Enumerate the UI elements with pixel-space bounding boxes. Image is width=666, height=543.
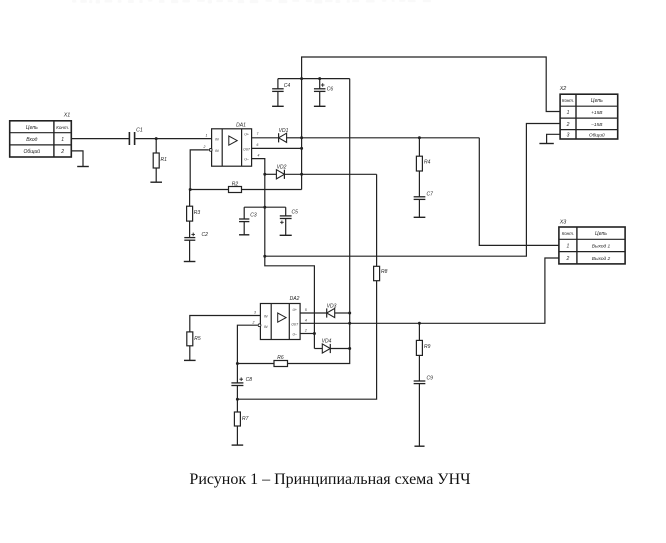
svg-text:3: 3 xyxy=(254,311,256,315)
junction cap rail xyxy=(300,77,303,80)
svg-text:4: 4 xyxy=(258,153,260,157)
wire VD1 to +rail xyxy=(287,137,302,139)
connector X2 table xyxy=(560,94,618,139)
wire R2 to rail xyxy=(242,189,302,191)
svg-text:Цепь: Цепь xyxy=(595,231,607,237)
capacitor C7 xyxy=(414,191,433,199)
wire DA1 OUT xyxy=(252,147,302,149)
wire X1.2 to ground xyxy=(71,151,83,166)
svg-text:5: 5 xyxy=(305,308,307,312)
svg-text:DA2: DA2 xyxy=(290,296,300,302)
ground at C9 xyxy=(414,445,424,447)
svg-text:C8: C8 xyxy=(246,377,253,383)
svg-text:+15В: +15В xyxy=(591,110,603,116)
connector X3 table xyxy=(559,227,625,264)
ground at C2 xyxy=(184,261,196,263)
junction VD4 rail xyxy=(348,347,351,350)
resistor R8 xyxy=(374,266,388,280)
svg-text:2: 2 xyxy=(566,256,570,262)
svg-text:Цепь: Цепь xyxy=(591,98,603,104)
svg-text:U+: U+ xyxy=(244,132,248,136)
resistor R1 xyxy=(153,153,167,168)
svg-text:1: 1 xyxy=(567,110,570,116)
svg-text:VD3: VD3 xyxy=(327,303,337,309)
wire R3 to C2 xyxy=(189,221,191,238)
svg-text:Цепь: Цепь xyxy=(26,125,38,131)
resistor R5 xyxy=(187,332,201,346)
junction DA2 U- xyxy=(313,332,316,335)
svg-text:1: 1 xyxy=(567,244,570,250)
wire to X3.1 xyxy=(479,138,559,246)
svg-text:Конт.: Конт. xyxy=(562,231,574,236)
wire node to R2 xyxy=(190,189,228,191)
resistor R3 xyxy=(187,206,201,221)
junction R6 node xyxy=(236,362,239,365)
svg-text:IN: IN xyxy=(264,315,268,319)
svg-text:R2: R2 xyxy=(232,181,239,187)
svg-text:OUT: OUT xyxy=(243,147,251,151)
svg-text:2: 2 xyxy=(203,145,206,149)
svg-text:C4: C4 xyxy=(284,83,291,89)
junction VD2 rail xyxy=(300,173,303,176)
ground at X2.3 xyxy=(539,143,553,145)
wire R1 to ground xyxy=(155,168,157,182)
svg-text:R1: R1 xyxy=(161,157,168,163)
diode VD2 xyxy=(276,165,286,179)
svg-text:R8: R8 xyxy=(381,269,388,275)
svg-text:R4: R4 xyxy=(424,160,431,166)
connector X1 table xyxy=(10,121,72,157)
capacitor C3 xyxy=(239,207,257,235)
wire VD2 rail down xyxy=(376,174,378,266)
wire C3-C5 rail xyxy=(244,206,286,208)
svg-text:Конт.: Конт. xyxy=(56,125,69,130)
wire VD3 to rail xyxy=(335,312,350,314)
wire R4 to C7 xyxy=(418,171,420,197)
svg-text:C6: C6 xyxy=(327,87,334,93)
wire R5 to DA2 IN+ xyxy=(190,316,261,332)
svg-text:2: 2 xyxy=(252,320,255,324)
svg-text:IN: IN xyxy=(215,149,219,153)
svg-text:VD2: VD2 xyxy=(277,165,287,171)
wire C7 to ground xyxy=(418,199,420,217)
svg-text:Конт.: Конт. xyxy=(562,98,574,103)
page bleed-through artifact xyxy=(72,0,431,4)
capacitor C2 xyxy=(184,232,208,261)
svg-text:C2: C2 xyxy=(202,232,209,238)
svg-text:R3: R3 xyxy=(194,210,201,216)
wire DA2 inverting down xyxy=(237,325,257,382)
wire R6 right xyxy=(288,79,350,364)
resistor R2 xyxy=(229,181,242,192)
DA2 pin numbers xyxy=(252,308,307,333)
svg-text:IN: IN xyxy=(264,325,268,329)
wire VD2 to R8 line xyxy=(284,173,376,175)
svg-text:R5: R5 xyxy=(194,336,201,342)
wire DA1 U+ to VD1 xyxy=(252,137,279,139)
wire -15V rail xyxy=(265,174,315,348)
capacitor C5 xyxy=(280,207,298,235)
diode VD3 xyxy=(327,303,337,317)
resistor R7 xyxy=(234,412,248,426)
wire DA2 U+ to VD3 xyxy=(300,312,327,314)
svg-text:C9: C9 xyxy=(427,376,434,382)
svg-text:OUT: OUT xyxy=(291,322,299,326)
connector X3 label xyxy=(559,220,567,226)
svg-text:X1: X1 xyxy=(63,113,71,119)
diode VD4 xyxy=(322,338,332,353)
svg-text:Выход 1: Выход 1 xyxy=(592,244,611,250)
svg-text:U–: U– xyxy=(244,158,248,162)
wire node A to R1 xyxy=(155,139,157,153)
svg-text:7: 7 xyxy=(257,132,259,136)
wire DA2 OUT to X3.2 xyxy=(300,258,559,323)
junction -15V X2 wire xyxy=(263,255,266,258)
op-amp DA2 xyxy=(258,296,300,340)
resistor R6 xyxy=(274,355,288,367)
ground at C7 xyxy=(414,216,426,218)
svg-text:Вход: Вход xyxy=(26,137,37,143)
wire X2.2 -15V xyxy=(265,124,560,257)
svg-text:R9: R9 xyxy=(424,344,431,350)
svg-text:2: 2 xyxy=(60,149,64,155)
wire C1 to node A xyxy=(135,138,211,140)
junction VD1 rail xyxy=(300,136,303,139)
svg-text:C5: C5 xyxy=(292,210,299,216)
capacitor C4 xyxy=(272,79,290,107)
connector X1 label xyxy=(63,113,71,119)
wire R6 left xyxy=(237,363,274,365)
wire VD4 to rail xyxy=(330,348,349,350)
wire node to R3 xyxy=(189,190,191,207)
connector X2 label xyxy=(559,86,567,92)
junction R9 xyxy=(418,322,421,325)
capacitor C1 xyxy=(129,128,143,146)
svg-text:C3: C3 xyxy=(250,212,257,218)
svg-text:1: 1 xyxy=(206,134,208,138)
resistor R4 xyxy=(416,156,430,171)
junction U- VD2 xyxy=(263,173,266,176)
junction C3C5 rail xyxy=(263,206,266,209)
svg-text:R7: R7 xyxy=(242,416,249,422)
wire +15V top rail xyxy=(302,57,560,190)
svg-text:Рисунок 1 – Принципиальная схе: Рисунок 1 – Принципиальная схема УНЧ xyxy=(189,471,470,488)
svg-text:–15В: –15В xyxy=(590,122,603,128)
svg-text:VD4: VD4 xyxy=(322,338,332,344)
wire to VD4 xyxy=(314,348,322,350)
junction OUT2 rail xyxy=(348,322,351,325)
ground at X1.2 xyxy=(77,166,89,168)
wire DA2 U- xyxy=(300,333,314,335)
ground at R5 xyxy=(184,359,196,361)
ground at C3 xyxy=(239,234,249,236)
svg-text:Общий: Общий xyxy=(24,148,41,155)
wire X1.1 to C1 xyxy=(71,138,129,140)
svg-text:U–: U– xyxy=(293,333,297,337)
wire R7 to ground xyxy=(236,426,238,445)
wire U- to VD2 xyxy=(265,173,277,175)
wire R5 to ground xyxy=(189,346,191,361)
wire R4 top xyxy=(418,138,420,156)
svg-text:Общий: Общий xyxy=(589,132,605,139)
ground at C6 xyxy=(314,105,326,107)
svg-text:4: 4 xyxy=(305,318,307,322)
wire X2.3 to ground xyxy=(547,134,561,143)
DA1 pin numbers xyxy=(203,132,260,157)
svg-text:X3: X3 xyxy=(559,220,567,226)
svg-text:6: 6 xyxy=(257,143,259,147)
svg-text:C1: C1 xyxy=(136,128,143,134)
resistor R9 xyxy=(416,340,430,355)
junction VD3 rail xyxy=(348,312,351,315)
svg-text:1: 1 xyxy=(61,137,64,143)
ground at R1 xyxy=(150,181,162,183)
wire R8 down xyxy=(237,281,376,400)
junction OUT rail xyxy=(300,147,303,150)
svg-text:R6: R6 xyxy=(277,355,284,361)
ground at R7 xyxy=(232,444,244,446)
svg-text:Выход 2: Выход 2 xyxy=(592,256,611,262)
capacitor C6 xyxy=(314,79,333,107)
svg-text:IN: IN xyxy=(215,138,219,142)
wire DA1 U- down xyxy=(252,159,265,175)
svg-text:C7: C7 xyxy=(427,191,434,197)
junction C8 bottom xyxy=(236,398,239,401)
capacitor C8 xyxy=(231,377,252,412)
ground at C4 xyxy=(272,105,284,107)
wire R9 to C9 xyxy=(418,355,420,381)
svg-text:2: 2 xyxy=(304,329,307,333)
svg-text:U+: U+ xyxy=(292,308,296,312)
junction feedback node xyxy=(189,188,192,191)
svg-text:X2: X2 xyxy=(559,86,567,92)
wire R9 top xyxy=(418,323,420,340)
wire output rail right xyxy=(302,137,480,139)
svg-text:3: 3 xyxy=(567,133,570,139)
svg-text:DA1: DA1 xyxy=(236,123,246,129)
svg-text:VD1: VD1 xyxy=(279,128,289,134)
wire C4-C6 rail xyxy=(278,78,350,80)
svg-text:2: 2 xyxy=(566,122,570,128)
op-amp DA1 xyxy=(209,123,251,167)
ground at C5 xyxy=(280,234,292,236)
junction C6 xyxy=(318,77,321,80)
wire C9 to ground xyxy=(418,384,420,447)
capacitor C9 xyxy=(414,376,433,384)
node A junction xyxy=(155,137,158,140)
junction R4 xyxy=(418,136,421,139)
wire DA1 inverting feedback xyxy=(190,150,209,190)
diode VD1 xyxy=(279,128,289,142)
